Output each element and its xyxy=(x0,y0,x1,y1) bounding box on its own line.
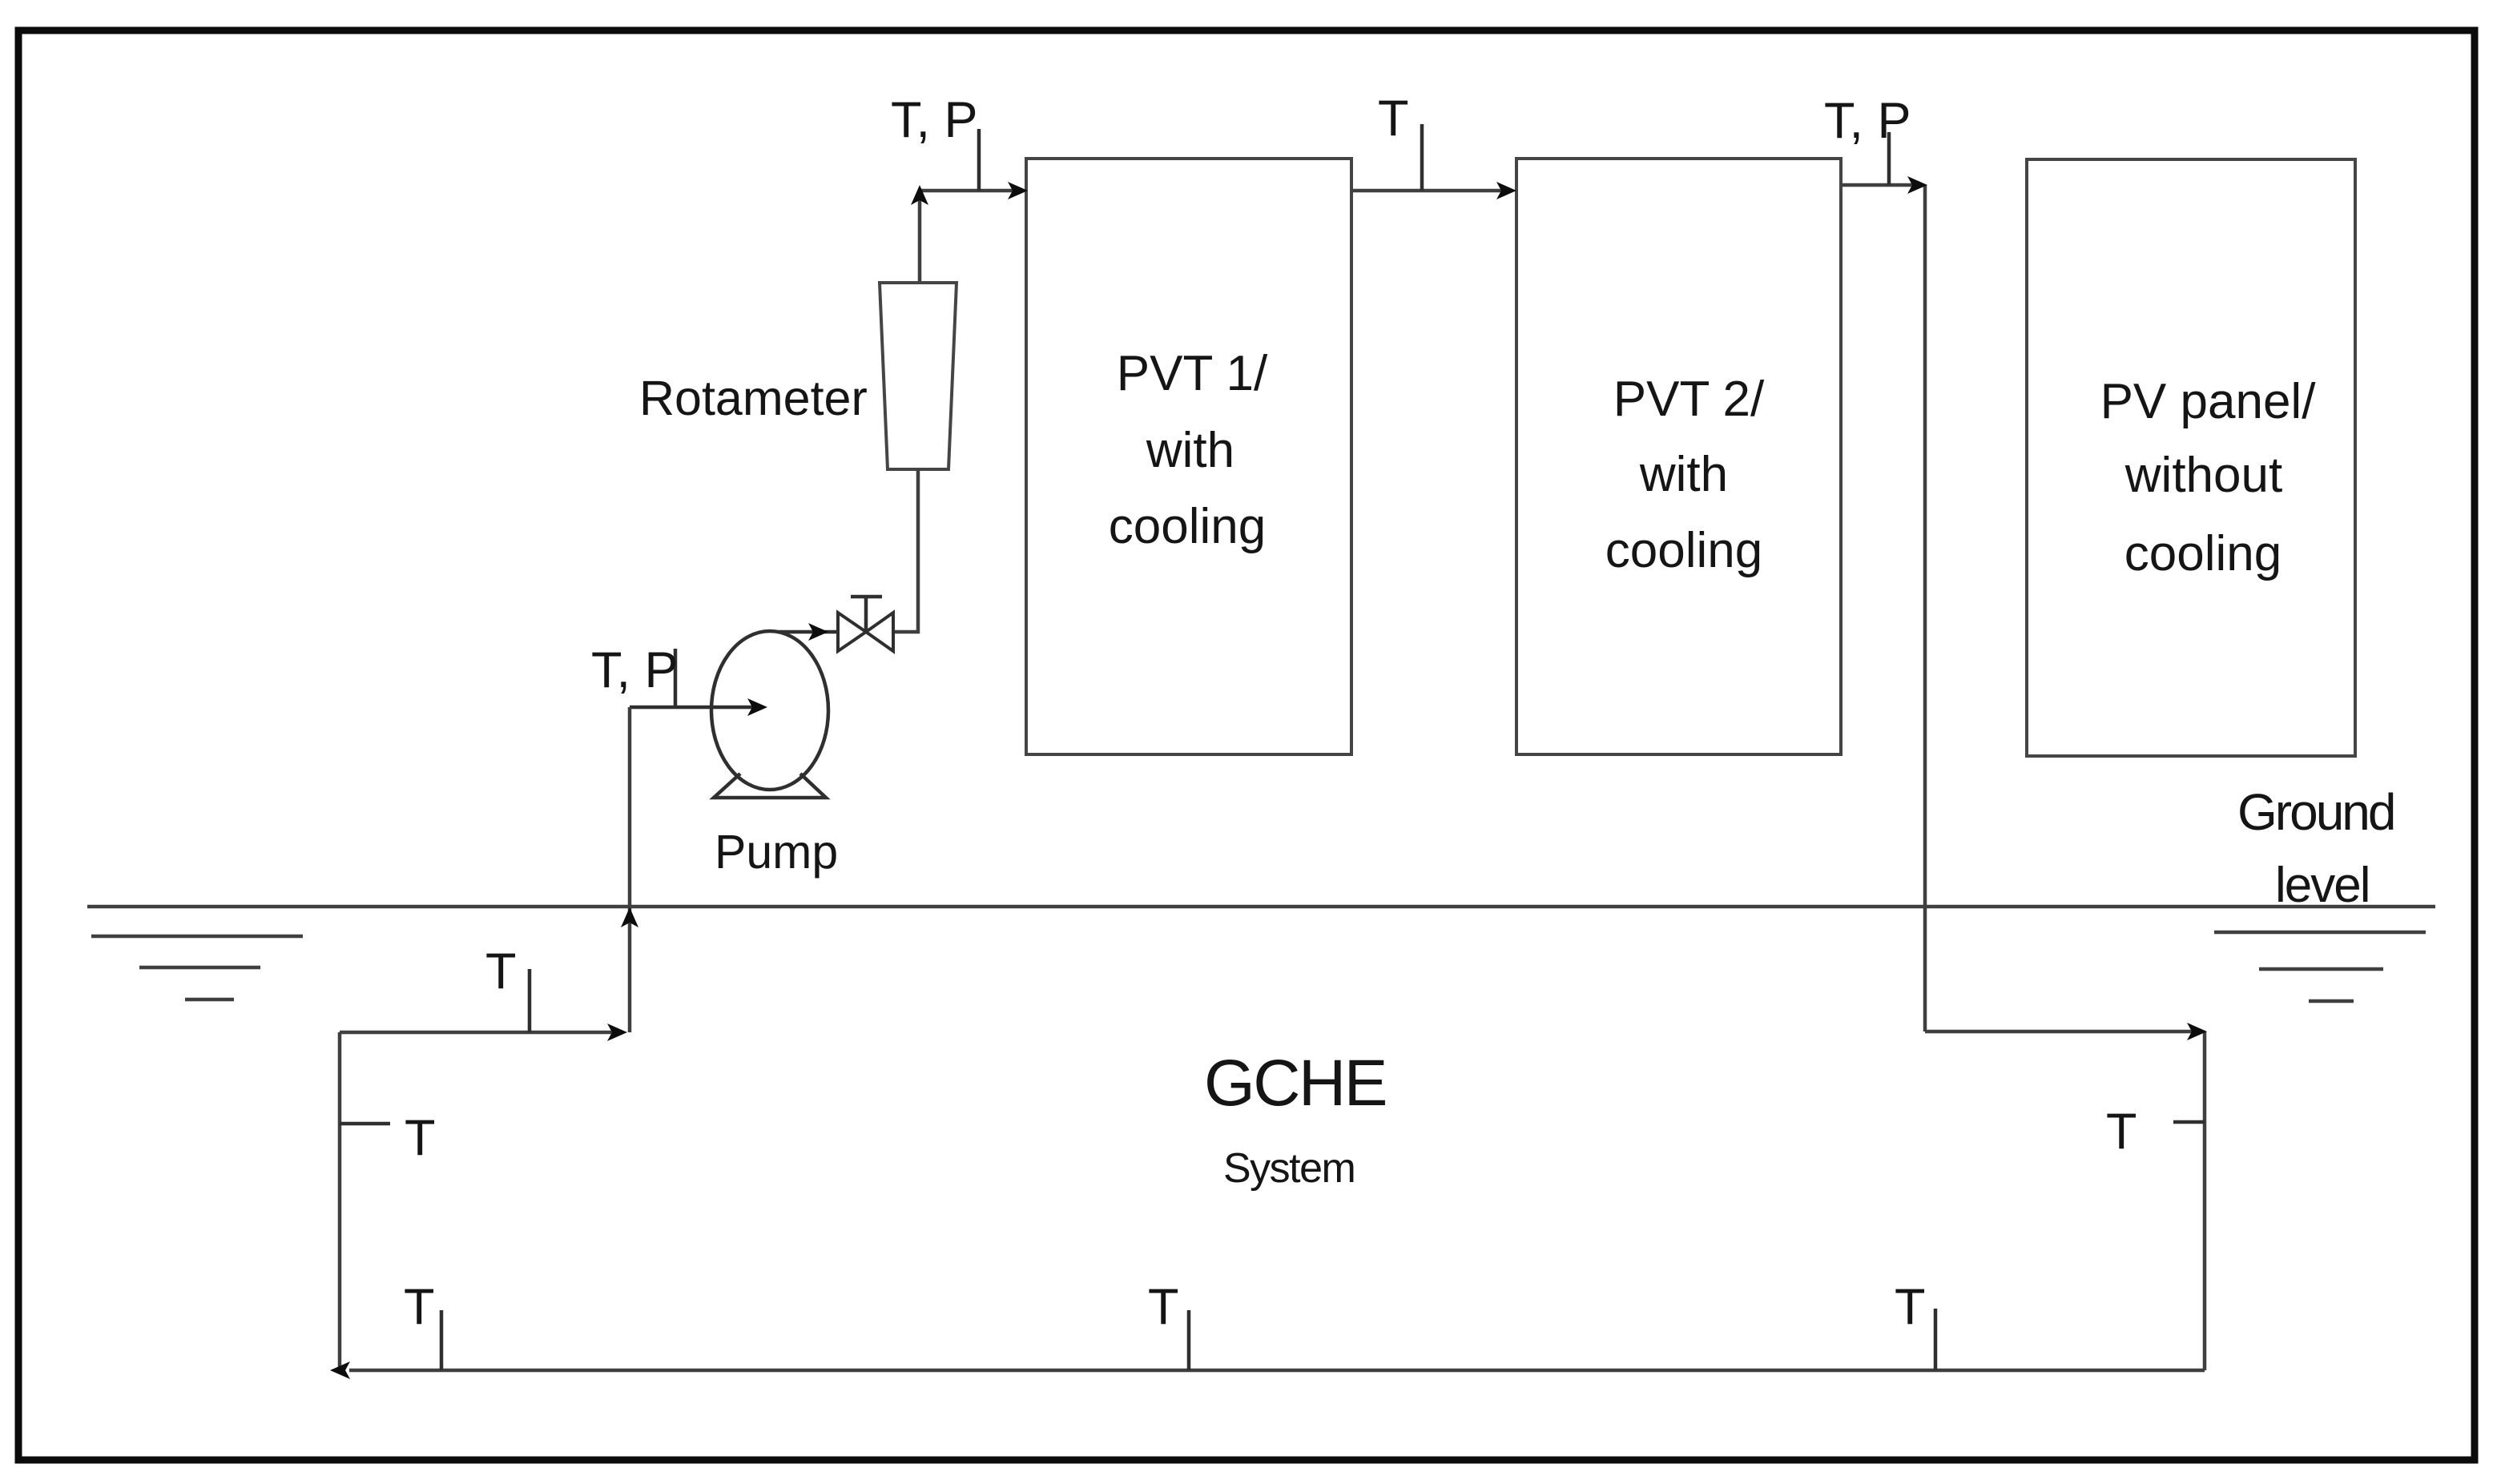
svg-text:T: T xyxy=(404,1279,434,1335)
node: T,P sensor at PVT2 outlet xyxy=(1887,132,1891,185)
svg-text:Ground: Ground xyxy=(2237,783,2394,841)
PVT 2 box xyxy=(1516,159,1841,754)
wire: pump inlet riser from below ground xyxy=(628,707,632,1032)
svg-text:T: T xyxy=(1895,1279,1925,1335)
svg-text:T: T xyxy=(1378,90,1408,147)
svg-text:T, P: T, P xyxy=(591,642,679,698)
valve V1 xyxy=(838,613,866,651)
node: T,P sensor at PVT1 inlet xyxy=(977,129,981,191)
wire: below-ground horizontal to riser with arrow xyxy=(340,1031,617,1035)
PV panel box xyxy=(2027,159,2355,756)
wire: riser above rotameter with up arrow xyxy=(918,191,922,285)
svg-text:T: T xyxy=(485,943,516,999)
svg-text:T, P: T, P xyxy=(891,92,978,148)
svg-text:cooling: cooling xyxy=(1605,523,1762,578)
node: T sensor bottom right xyxy=(1934,1309,1938,1370)
wire: downpipe from PVT2 outlet xyxy=(1923,185,1927,1032)
node: T sensor bottom left xyxy=(440,1310,444,1370)
pump P1 xyxy=(711,631,828,790)
ground hatch right 2 xyxy=(2259,967,2383,971)
wire: left leg down xyxy=(338,1032,342,1370)
wire: PVT1 to PVT2 pipe with arrow xyxy=(1351,189,1509,193)
node: T sensor below ground near pump riser xyxy=(528,969,532,1032)
wire: rotameter down to valve elbow xyxy=(893,469,918,632)
node: T sensor on left leg xyxy=(340,1122,390,1126)
node: T,P sensor at pump inlet xyxy=(674,649,678,707)
ground hatch left 1 xyxy=(91,935,303,939)
svg-text:T: T xyxy=(2106,1104,2137,1160)
wire: bottom pipe with left arrow xyxy=(349,1369,2205,1373)
svg-text:System: System xyxy=(1223,1145,1355,1192)
svg-text:Rotameter: Rotameter xyxy=(639,371,868,425)
svg-text:T: T xyxy=(405,1110,435,1166)
PVT 1 box xyxy=(1026,159,1351,754)
wire: pump inlet with arrow xyxy=(630,706,753,710)
svg-text:T: T xyxy=(1148,1279,1178,1335)
node: T sensor on right leg xyxy=(2173,1120,2205,1124)
svg-text:GCHE: GCHE xyxy=(1204,1047,1386,1120)
svg-text:PV panel/: PV panel/ xyxy=(2100,374,2317,429)
svg-text:cooling: cooling xyxy=(2124,526,2282,581)
svg-text:cooling: cooling xyxy=(1109,499,1266,554)
svg-text:PVT 1/: PVT 1/ xyxy=(1117,346,1268,401)
wire: right leg xyxy=(2203,1032,2207,1370)
arrow up at ground crossing xyxy=(621,907,638,927)
node: T sensor between PVT1 and PVT2 xyxy=(1420,124,1424,191)
svg-text:PVT 2/: PVT 2/ xyxy=(1613,372,1765,427)
svg-text:with: with xyxy=(1146,423,1234,478)
ground hatch right 3 xyxy=(2309,999,2354,1003)
node: T sensor bottom middle xyxy=(1187,1310,1191,1370)
wire: PVT2 outlet horizontal with arrow xyxy=(1841,183,1918,187)
svg-text:with: with xyxy=(1639,447,1728,502)
wire: pump outlet to valve with arrow xyxy=(767,630,838,634)
wire: pipe into PVT1 xyxy=(920,189,1019,193)
svg-text:Pump: Pump xyxy=(715,826,838,879)
svg-text:without: without xyxy=(2124,448,2282,503)
rotameter body xyxy=(880,283,957,469)
ground hatch right 1 xyxy=(2214,931,2426,935)
svg-text:T, P: T, P xyxy=(1824,93,1911,149)
ground hatch left 2 xyxy=(139,966,260,970)
svg-text:level: level xyxy=(2275,858,2370,913)
ground hatch left 3 xyxy=(185,998,234,1002)
ground level line xyxy=(87,905,2435,909)
wire: below-ground right horizontal with arrow xyxy=(1925,1030,2198,1034)
